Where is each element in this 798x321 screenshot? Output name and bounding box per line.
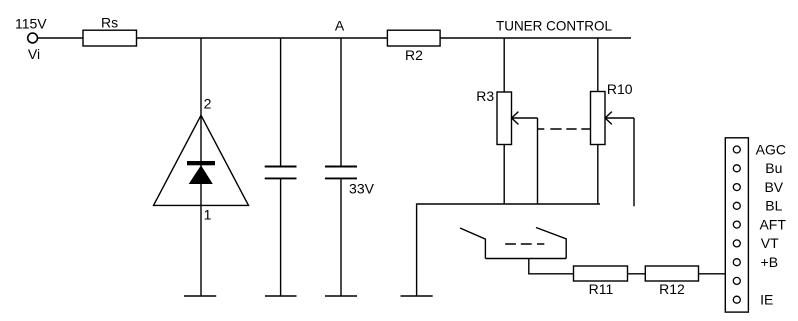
wire node A drop bbox=[340, 38, 342, 166]
R10 wiper bbox=[605, 112, 612, 125]
wire bbox=[628, 273, 646, 275]
svg-text:BL: BL bbox=[765, 198, 782, 214]
connector pins bbox=[733, 146, 740, 303]
svg-text:1: 1 bbox=[204, 206, 212, 222]
wire bbox=[340, 178, 342, 296]
bottom rail bbox=[417, 204, 600, 296]
capacitor C2 33V bbox=[325, 167, 357, 179]
resistor R2 bbox=[387, 30, 440, 46]
wire R10 top bbox=[597, 38, 599, 92]
svg-text:Rs: Rs bbox=[101, 14, 118, 30]
svg-text:R12: R12 bbox=[659, 281, 685, 297]
svg-text:R11: R11 bbox=[589, 281, 614, 297]
R3 wiper bbox=[512, 112, 519, 125]
potentiometer R3 bbox=[497, 92, 512, 145]
wire R3 bottom bbox=[503, 145, 505, 205]
svg-text:TUNER CONTROL: TUNER CONTROL bbox=[496, 18, 612, 34]
terminal Vi bbox=[28, 33, 38, 43]
ground bbox=[401, 295, 433, 297]
diode D1 outline bbox=[154, 115, 249, 205]
zener diode symbol inside triangle bbox=[187, 161, 215, 184]
wire bbox=[37, 37, 83, 39]
potentiometer R10 bbox=[591, 92, 606, 145]
svg-text:AFT: AFT bbox=[759, 216, 786, 232]
wire bbox=[440, 37, 631, 39]
svg-text:A: A bbox=[335, 18, 345, 34]
svg-text:2: 2 bbox=[204, 96, 212, 112]
dashed gang link pots bbox=[538, 128, 591, 130]
switch lever 1 bbox=[460, 228, 485, 259]
svg-text:Vi: Vi bbox=[28, 46, 40, 62]
svg-text:115V: 115V bbox=[15, 15, 47, 31]
resistor R12 bbox=[645, 266, 698, 281]
svg-text:AGC: AGC bbox=[756, 141, 786, 157]
switch bottom bracket bbox=[485, 258, 566, 260]
wire bbox=[200, 38, 202, 115]
resistor R11 bbox=[574, 266, 628, 281]
ground bbox=[184, 295, 216, 297]
svg-text:33V: 33V bbox=[349, 181, 375, 197]
wire bbox=[699, 273, 726, 275]
svg-text:IE: IE bbox=[760, 292, 773, 308]
svg-text:R3: R3 bbox=[476, 88, 494, 104]
svg-text:Bu: Bu bbox=[765, 160, 782, 176]
connector J1 body bbox=[725, 138, 748, 312]
switch lever 2 bbox=[536, 228, 566, 259]
switch tap wire bbox=[529, 259, 574, 274]
wire bbox=[200, 115, 202, 296]
wire R3 top bbox=[503, 38, 505, 92]
capacitor C1 bbox=[265, 167, 297, 179]
wire bbox=[280, 38, 282, 166]
resistor Rs bbox=[83, 30, 137, 46]
ground bbox=[265, 295, 297, 297]
wire bbox=[137, 37, 388, 39]
wire bbox=[280, 178, 282, 296]
svg-text:R10: R10 bbox=[607, 81, 633, 97]
wire R10 bottom bbox=[597, 145, 599, 205]
switch dashed link bbox=[505, 243, 544, 245]
svg-text:BV: BV bbox=[764, 179, 783, 195]
ground bbox=[325, 295, 357, 297]
svg-text:R2: R2 bbox=[405, 47, 423, 63]
svg-text:+B: +B bbox=[761, 254, 779, 270]
svg-text:VT: VT bbox=[761, 235, 779, 251]
